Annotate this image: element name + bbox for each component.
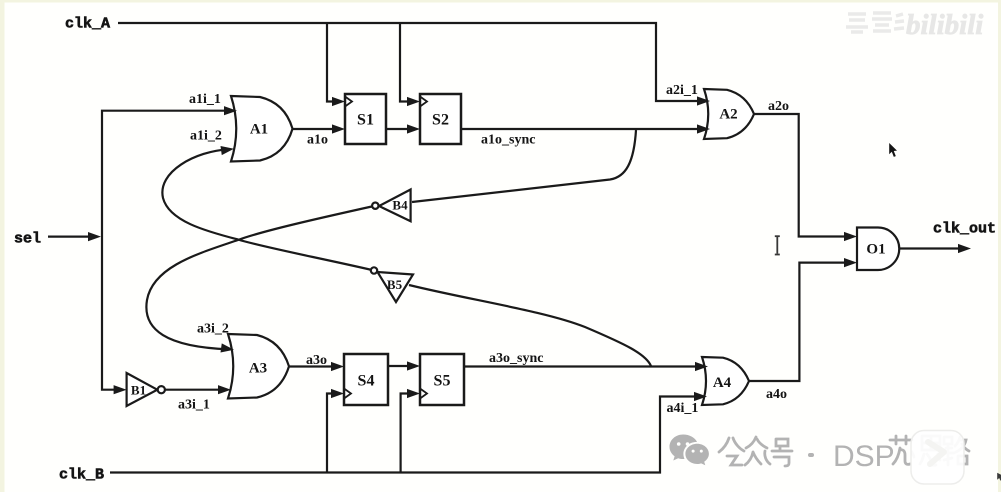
svg-text:A2: A2 [719, 107, 737, 123]
svg-text:a4o: a4o [766, 387, 787, 402]
svg-text:A1: A1 [250, 122, 268, 138]
svg-text:bilibili: bilibili [906, 9, 983, 41]
svg-text:S5: S5 [434, 373, 451, 390]
svg-text:DSP: DSP [833, 440, 895, 473]
svg-text:a3o_sync: a3o_sync [489, 351, 543, 366]
svg-text:B1: B1 [131, 383, 146, 398]
svg-text:a2o: a2o [768, 99, 789, 114]
svg-text:a3i_2: a3i_2 [197, 322, 229, 337]
svg-text:a3o: a3o [306, 353, 327, 368]
svg-text:clk_A: clk_A [65, 15, 110, 32]
svg-text:S2: S2 [432, 112, 449, 129]
svg-text:a1i_1: a1i_1 [189, 92, 221, 107]
svg-text:A3: A3 [249, 361, 267, 377]
svg-text:a3i_1: a3i_1 [178, 398, 210, 413]
svg-text:S1: S1 [357, 112, 374, 129]
svg-text:a1i_2: a1i_2 [190, 129, 222, 144]
svg-text:a2i_1: a2i_1 [666, 83, 698, 98]
svg-text:a1o: a1o [307, 133, 328, 148]
svg-text:A4: A4 [713, 375, 732, 391]
svg-text:sel: sel [14, 231, 41, 248]
svg-text:O1: O1 [866, 242, 885, 258]
svg-text:a4i_1: a4i_1 [667, 401, 699, 416]
svg-text:a1o_sync: a1o_sync [481, 133, 535, 148]
svg-text:B5: B5 [387, 277, 403, 292]
svg-text:clk_B: clk_B [59, 466, 104, 483]
svg-text:S4: S4 [358, 373, 375, 390]
svg-text:clk_out: clk_out [933, 220, 996, 237]
svg-text:B4: B4 [392, 198, 408, 213]
